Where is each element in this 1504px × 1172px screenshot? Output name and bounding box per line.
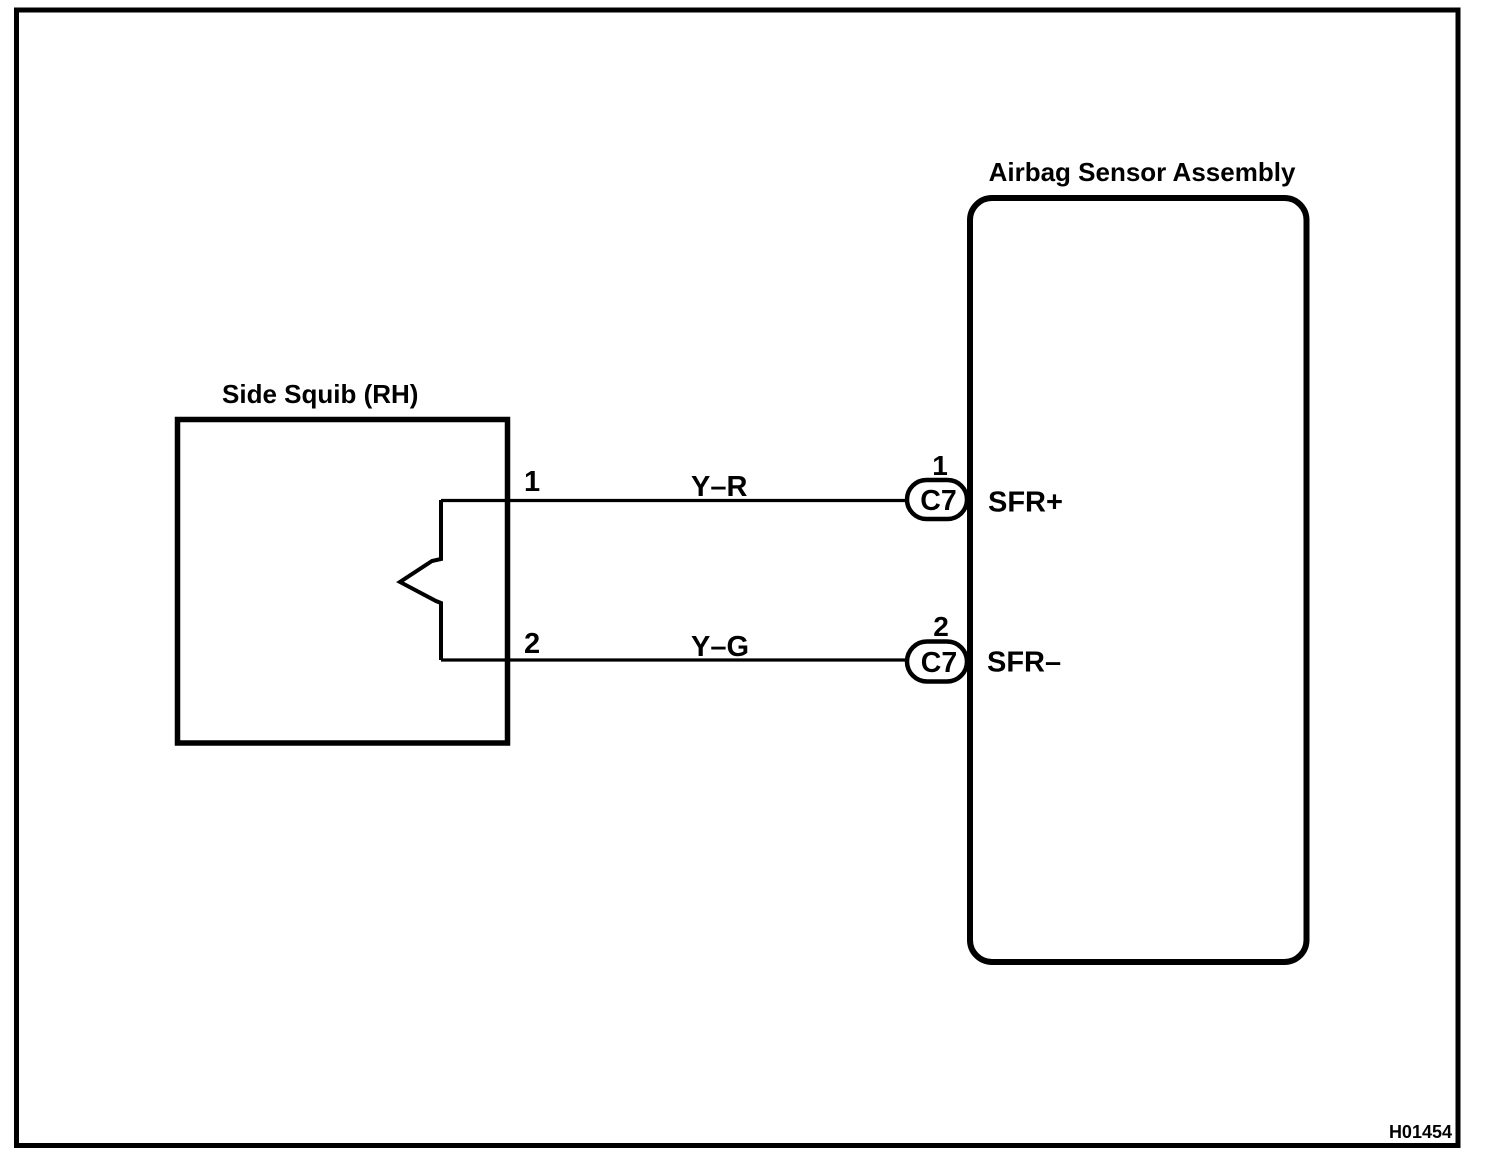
component box: Airbag Sensor Assembly: [970, 198, 1307, 962]
svg-text:1: 1: [524, 466, 540, 498]
svg-text:H01454: H01454: [1389, 1122, 1452, 1142]
svg-text:Side Squib (RH): Side Squib (RH): [222, 379, 418, 409]
squib element (zigzag) inside Side Squib box: [400, 500, 441, 660]
svg-text:1: 1: [932, 450, 948, 481]
connector C7 pin 1 oval: [907, 480, 967, 519]
svg-text:Y–R: Y–R: [691, 471, 747, 503]
svg-text:Y–G: Y–G: [691, 631, 749, 663]
svg-text:SFR+: SFR+: [988, 487, 1063, 519]
svg-text:Airbag Sensor Assembly: Airbag Sensor Assembly: [989, 157, 1296, 187]
wire 2 (Y-G): [441, 658, 908, 661]
svg-text:2: 2: [933, 611, 949, 642]
component box: Side Squib (RH): [178, 420, 508, 744]
wire 1 (Y-R): [441, 499, 908, 502]
svg-text:C7: C7: [920, 485, 956, 517]
svg-text:SFR–: SFR–: [987, 647, 1061, 679]
svg-text:2: 2: [524, 628, 540, 660]
svg-text:C7: C7: [921, 647, 957, 679]
connector C7 pin 2 oval: [907, 642, 967, 682]
